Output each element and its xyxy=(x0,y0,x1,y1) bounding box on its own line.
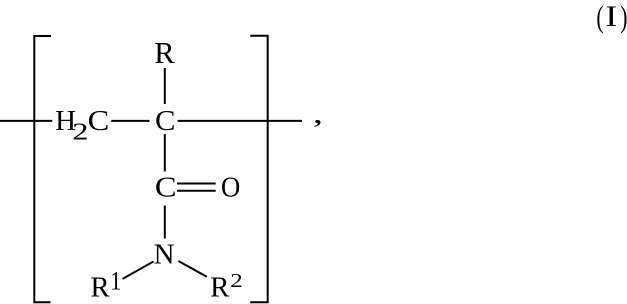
right repeat bracket xyxy=(250,36,268,303)
bond C-N xyxy=(164,206,166,239)
bond N-R2 xyxy=(178,261,206,277)
svg-text:,: , xyxy=(313,99,323,128)
svg-text:C: C xyxy=(88,105,110,137)
svg-text:1: 1 xyxy=(110,268,121,296)
svg-text:R: R xyxy=(154,36,175,70)
wire: chain bond entering from left xyxy=(0,120,52,122)
bond R-C xyxy=(164,68,166,104)
svg-text:2: 2 xyxy=(72,119,88,145)
bond C-C(=O) xyxy=(164,134,166,172)
svg-text:I: I xyxy=(605,0,617,33)
svg-text:(: ( xyxy=(596,0,603,34)
svg-text:C: C xyxy=(155,105,176,137)
svg-text:C: C xyxy=(155,171,177,203)
svg-text:O: O xyxy=(221,172,240,204)
double bond C=O lower xyxy=(177,190,216,192)
svg-text:R: R xyxy=(210,271,230,303)
svg-text:N: N xyxy=(154,239,175,271)
svg-text:2: 2 xyxy=(230,269,242,291)
left repeat bracket xyxy=(34,36,51,302)
bond H2C-C xyxy=(111,120,149,122)
wire: chain bond exiting right xyxy=(178,120,302,122)
double bond C=O upper xyxy=(177,183,216,185)
bond N-R1 xyxy=(123,262,154,279)
svg-text:): ) xyxy=(620,0,627,34)
svg-text:R: R xyxy=(90,271,110,303)
